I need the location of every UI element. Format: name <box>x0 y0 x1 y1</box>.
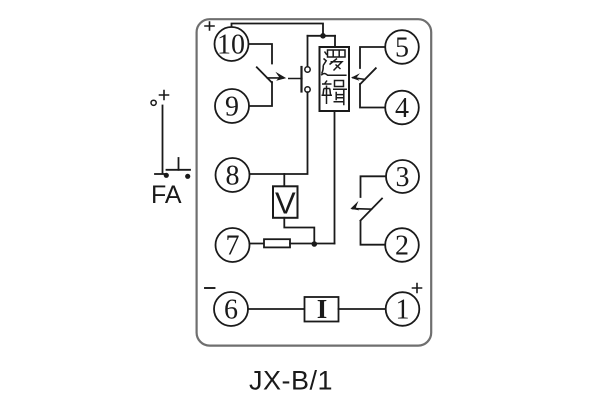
FA link bar <box>167 169 191 171</box>
contact K2 movable bar <box>300 67 302 92</box>
contact K1 arrowhead <box>275 72 286 81</box>
FA plus sign <box>160 91 169 100</box>
FA terminal dot right <box>185 174 190 179</box>
terminal 10 <box>215 27 249 61</box>
terminal 7 <box>216 228 250 262</box>
wire: V box bottom elbow to junction <box>284 218 314 244</box>
wire: horizontal bus above contact K2 <box>308 35 336 37</box>
svg-text:7: 7 <box>226 230 240 261</box>
contact K2 upper fixed circle <box>305 67 310 72</box>
svg-text:4: 4 <box>395 93 409 124</box>
wire: K2 lower circle down to terminal 8 wire <box>250 92 308 174</box>
contact K1 blade <box>257 67 272 82</box>
polarity + (top-left inside case) <box>205 22 214 30</box>
voltage element box V <box>273 186 298 218</box>
polarity - (near terminal 6) <box>205 287 215 289</box>
svg-text:10: 10 <box>217 29 245 60</box>
FA link handle <box>178 158 180 170</box>
svg-text:1: 1 <box>396 294 410 325</box>
wire: down to contact K2 upper circle <box>307 36 309 67</box>
contact K4 arrowhead <box>350 201 359 210</box>
wire: terminal 6 to current box <box>248 308 305 310</box>
svg-text:V: V <box>275 186 296 221</box>
wire: terminal 10 top to junction <box>232 24 324 36</box>
terminal 9 <box>215 89 249 123</box>
contact K4 blade <box>361 199 383 221</box>
wire: down to logic box top <box>334 36 336 47</box>
wire: terminal 9 right elbow <box>249 82 272 106</box>
terminal 5 <box>385 30 419 64</box>
svg-text:3: 3 <box>396 162 410 193</box>
polarity + (near terminal 1) <box>413 284 422 293</box>
contact K3 blade <box>360 68 376 84</box>
svg-text:2: 2 <box>395 230 409 261</box>
svg-text:9: 9 <box>225 91 239 122</box>
wire: terminal 10 right elbow <box>249 44 273 64</box>
logic unit box <box>320 47 350 111</box>
wire: resistor to logic pin corner <box>290 243 335 245</box>
terminal 1 <box>386 292 420 326</box>
wire: terminal 4 elbow <box>360 84 385 108</box>
wire: current box to terminal 1 <box>339 308 386 310</box>
FA terminal dot left <box>164 173 169 178</box>
wire: terminal 2 elbow <box>361 221 386 245</box>
FA foot bar <box>155 173 166 175</box>
terminal 4 <box>385 91 419 125</box>
contact K2 lower fixed circle <box>305 87 310 92</box>
terminal 6 <box>214 292 248 326</box>
svg-text:8: 8 <box>226 160 240 191</box>
svg-text:5: 5 <box>395 32 409 63</box>
contact K3 actuation link <box>353 78 365 80</box>
svg-text:I: I <box>317 294 328 324</box>
junction dot <box>320 33 326 39</box>
logic glyph luo (逻) <box>321 50 346 75</box>
terminal 2 <box>385 228 419 262</box>
terminal 8 <box>216 158 250 192</box>
current element box I <box>305 297 339 322</box>
FA supply tap: open circle <box>151 100 156 105</box>
wire: terminal 3 elbow <box>361 176 387 197</box>
wire: terminal 7 to resistor <box>249 243 264 245</box>
wire: terminal 5 elbow <box>360 47 385 68</box>
svg-text:JX-B/1: JX-B/1 <box>249 366 333 396</box>
resistor R <box>264 239 290 247</box>
svg-text:6: 6 <box>224 294 238 325</box>
logic glyph ji (辑) <box>322 81 348 106</box>
FA wire down <box>162 106 164 173</box>
relay case outline <box>197 19 432 345</box>
svg-text:FA: FA <box>151 181 182 209</box>
contact K4 actuation link <box>353 208 372 211</box>
contact K3 arrowhead <box>351 73 360 81</box>
contact K1 actuation link <box>267 77 302 80</box>
wire: branch down to voltage box <box>283 174 285 186</box>
wire: logic box bottom pin <box>334 111 336 244</box>
terminal 3 <box>386 160 419 193</box>
junction dot <box>312 241 318 247</box>
